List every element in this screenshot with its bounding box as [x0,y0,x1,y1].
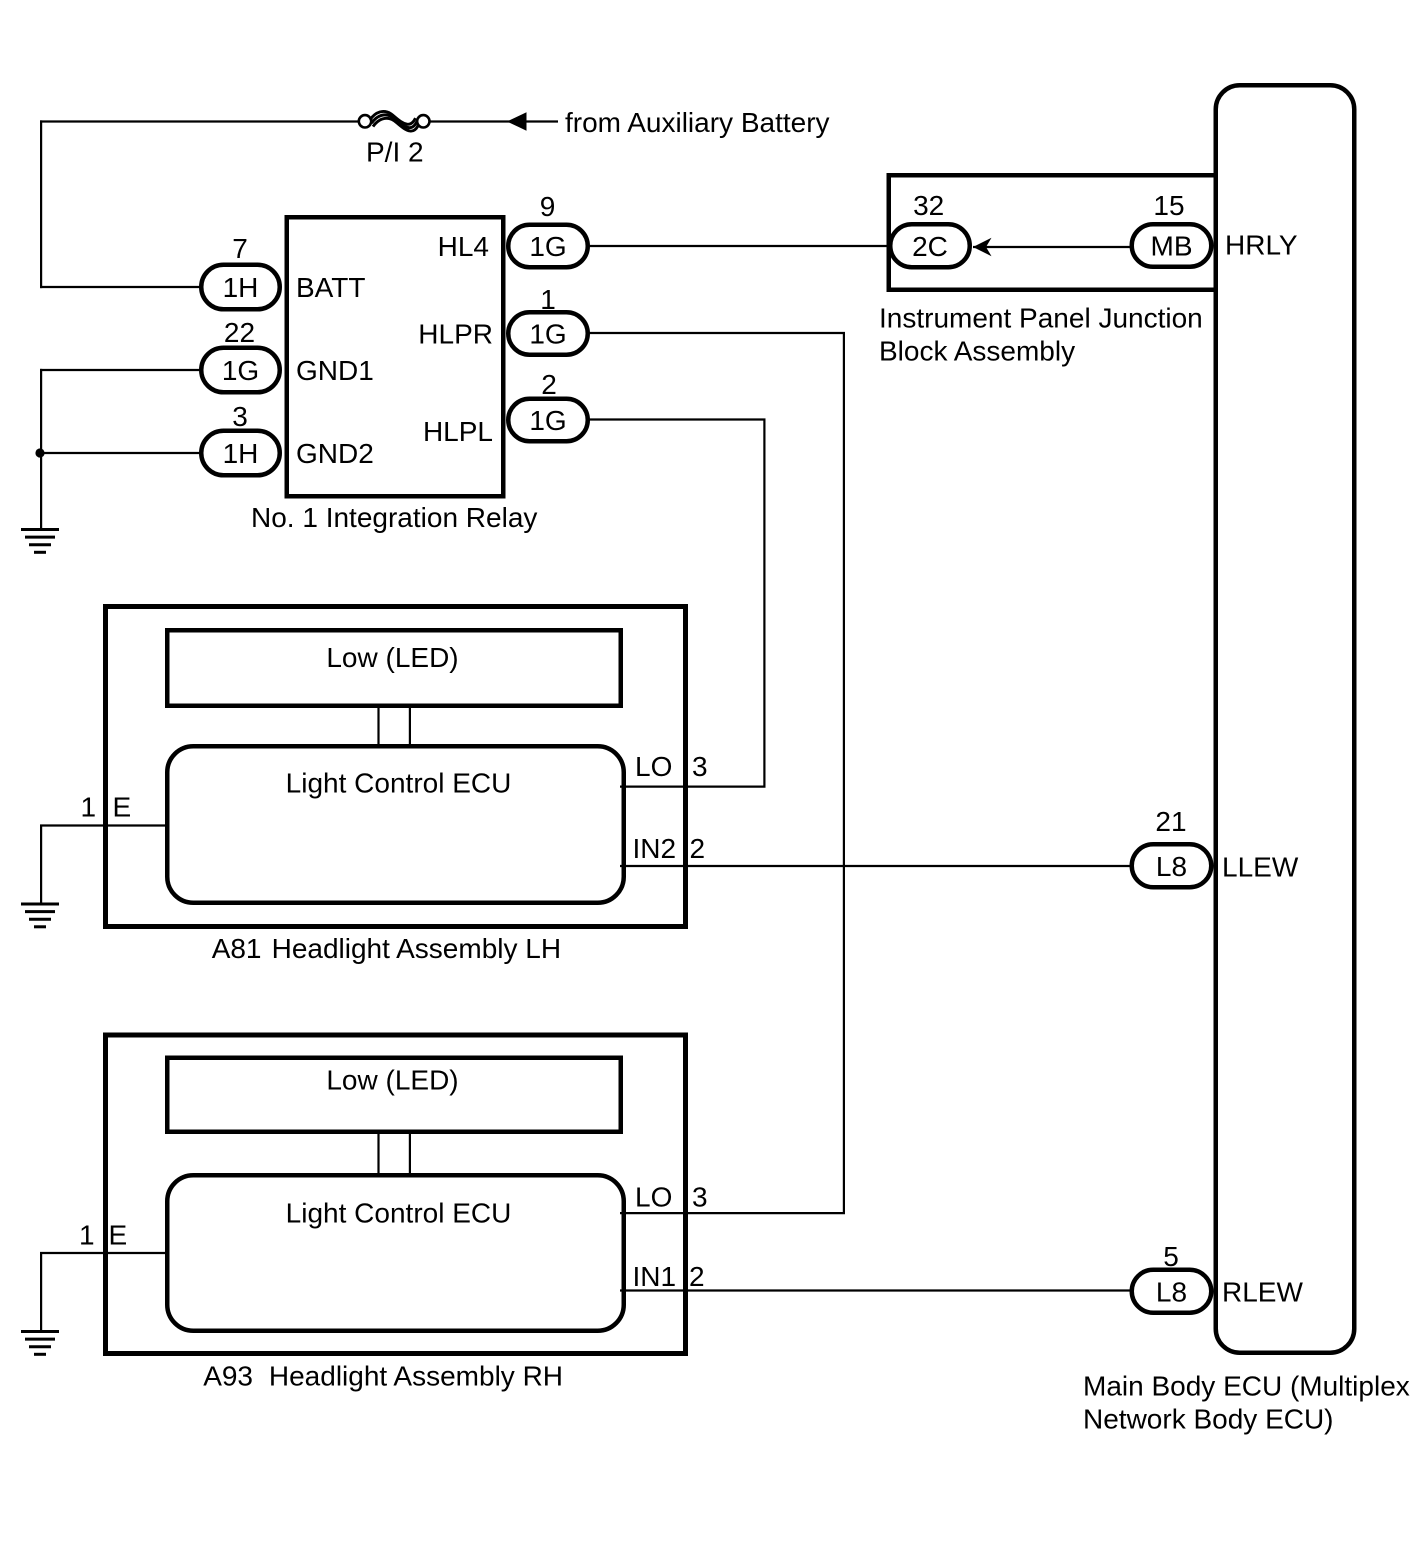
svg-text:1: 1 [79,1220,95,1251]
svg-text:A81: A81 [212,933,262,964]
svg-text:GND2: GND2 [296,438,374,469]
svg-text:2: 2 [690,833,706,864]
svg-text:Main Body ECU (Multiplex: Main Body ECU (Multiplex [1083,1371,1410,1402]
svg-text:Low (LED): Low (LED) [326,1065,458,1096]
svg-text:E: E [113,792,132,823]
svg-text:HLPR: HLPR [418,319,493,350]
svg-text:HRLY: HRLY [1225,230,1298,261]
svg-text:P/I 2: P/I 2 [366,137,424,168]
svg-text:2: 2 [689,1261,705,1292]
svg-text:GND1: GND1 [296,355,374,386]
svg-text:Headlight Assembly LH: Headlight Assembly LH [272,933,561,964]
svg-text:LO: LO [635,751,672,782]
svg-text:HLPL: HLPL [423,416,493,447]
svg-text:32: 32 [913,190,944,221]
svg-text:22: 22 [224,317,255,348]
svg-text:2C: 2C [912,231,948,262]
svg-text:9: 9 [540,191,556,222]
svg-text:Headlight Assembly RH: Headlight Assembly RH [269,1361,563,1392]
svg-text:MB: MB [1151,231,1193,262]
svg-text:Light Control ECU: Light Control ECU [286,1198,512,1229]
svg-text:Low (LED): Low (LED) [326,642,458,673]
svg-text:2: 2 [541,369,557,400]
svg-text:3: 3 [692,751,708,782]
svg-text:LLEW: LLEW [1222,852,1299,883]
svg-text:A93: A93 [203,1361,253,1392]
svg-text:HL4: HL4 [438,231,489,262]
svg-text:1G: 1G [222,355,259,386]
svg-text:L8: L8 [1156,1276,1187,1307]
svg-text:7: 7 [232,233,248,264]
svg-text:Block Assembly: Block Assembly [879,336,1075,367]
svg-text:1G: 1G [529,405,566,436]
svg-text:1G: 1G [529,319,566,350]
svg-text:IN1: IN1 [633,1261,677,1292]
svg-text:3: 3 [232,401,248,432]
svg-text:5: 5 [1163,1241,1179,1272]
svg-text:IN2: IN2 [633,833,677,864]
svg-text:1H: 1H [223,438,259,469]
svg-text:1: 1 [540,284,556,315]
svg-text:No. 1 Integration Relay: No. 1 Integration Relay [251,502,537,533]
svg-text:1: 1 [81,792,97,823]
svg-text:Light Control ECU: Light Control ECU [286,768,512,799]
svg-text:21: 21 [1155,806,1186,837]
svg-text:1H: 1H [223,272,259,303]
svg-text:RLEW: RLEW [1222,1277,1303,1308]
svg-text:E: E [109,1220,128,1251]
svg-text:BATT: BATT [296,272,365,303]
svg-text:Instrument Panel Junction: Instrument Panel Junction [879,303,1203,334]
svg-text:from Auxiliary Battery: from Auxiliary Battery [565,107,830,138]
svg-text:LO: LO [635,1182,672,1213]
svg-text:L8: L8 [1156,851,1187,882]
svg-text:1G: 1G [529,231,566,262]
svg-text:15: 15 [1153,190,1184,221]
svg-text:Network Body ECU): Network Body ECU) [1083,1404,1334,1435]
svg-text:3: 3 [692,1182,708,1213]
